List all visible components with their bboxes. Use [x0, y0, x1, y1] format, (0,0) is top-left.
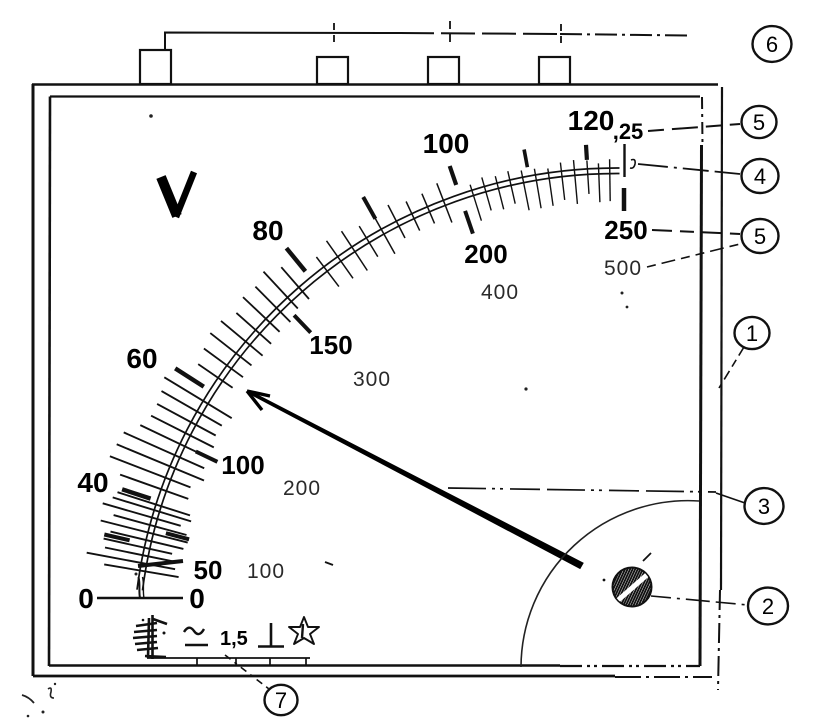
- svg-text:200: 200: [283, 477, 321, 500]
- svg-text:150: 150: [309, 330, 352, 360]
- svg-text:7: 7: [275, 688, 287, 713]
- svg-text:120: 120: [568, 105, 615, 136]
- svg-text:2: 2: [762, 594, 774, 619]
- svg-text:5: 5: [753, 110, 765, 135]
- svg-text:500: 500: [604, 257, 642, 280]
- svg-text:5: 5: [754, 224, 766, 249]
- svg-text:100: 100: [423, 128, 470, 159]
- svg-text:1: 1: [746, 321, 758, 346]
- svg-text:0: 0: [189, 583, 205, 614]
- svg-text:250: 250: [604, 215, 647, 245]
- svg-text:50: 50: [194, 555, 223, 585]
- svg-text:0: 0: [78, 583, 94, 614]
- svg-text:40: 40: [77, 467, 108, 498]
- svg-text:80: 80: [252, 215, 283, 246]
- svg-text:100: 100: [247, 560, 285, 583]
- svg-text:4: 4: [754, 164, 766, 189]
- svg-text:3: 3: [758, 494, 770, 519]
- svg-text:6: 6: [766, 32, 778, 57]
- svg-text:100: 100: [221, 450, 264, 480]
- svg-text:200: 200: [464, 239, 507, 269]
- svg-text:1,5: 1,5: [220, 628, 248, 650]
- svg-text:400: 400: [481, 281, 519, 304]
- svg-text:300: 300: [353, 368, 391, 391]
- svg-text:60: 60: [126, 343, 157, 374]
- svg-text:,25: ,25: [613, 119, 644, 144]
